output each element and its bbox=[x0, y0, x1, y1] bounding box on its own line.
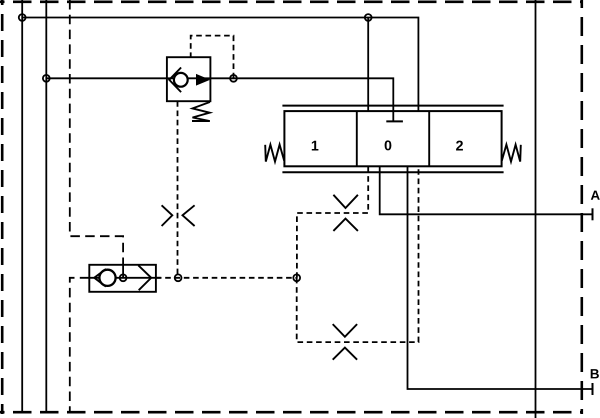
U1 body box bbox=[167, 57, 211, 101]
enclosure dashed border top bbox=[0, 0, 582, 3]
wire: dashed pilot from node junction up and right to valve port bbox=[297, 166, 368, 277]
V1 divider right bbox=[428, 111, 430, 166]
U1 spring bbox=[192, 102, 210, 121]
wire: top horizontal supply line bbox=[22, 18, 418, 112]
wire: drain dashed vertical (upper segment) with elbow to check valve top bbox=[70, 0, 123, 265]
wire: second horizontal line through check valve bbox=[46, 78, 393, 121]
node N7 bbox=[293, 274, 300, 281]
enclosure dashed border left bbox=[1, 0, 4, 414]
enclosure dashed border right bbox=[580, 0, 583, 414]
directional valve V1 (3-position proportional) bbox=[265, 106, 521, 173]
wire: drain dashed vertical (lower segment) from check valve left port to bottom bbox=[70, 278, 90, 411]
label B bbox=[591, 369, 599, 378]
wire: dashed pilot line from U1 bottom down to node bbox=[177, 101, 179, 278]
wire: left vertical line 2 bbox=[45, 0, 47, 411]
throttle R3 (lower, on horizontal dashed pilot) bbox=[333, 324, 357, 360]
port B end tick bbox=[592, 383, 594, 395]
wire: right vertical tank line bbox=[535, 0, 537, 418]
wire: dashed line from check valve U2 right port to node B junction bbox=[156, 277, 297, 279]
U2 top port stub bbox=[122, 265, 124, 278]
check valve U1 pilot dashed line bbox=[191, 36, 234, 79]
wire: left vertical line 1 (port P) bbox=[21, 0, 23, 411]
port A end tick bbox=[592, 208, 594, 220]
wire: vertical branch from node to valve top bbox=[367, 18, 369, 112]
V1 label 1 bbox=[312, 141, 319, 151]
wire: valve port to port A line bbox=[380, 166, 593, 214]
throttle R2 (upper, on horizontal dashed pilot) bbox=[333, 195, 358, 231]
V1 label 2 bbox=[456, 141, 463, 151]
throttle R1 (on vertical dashed line) bbox=[162, 205, 195, 226]
node N3 bbox=[365, 14, 372, 21]
V1 envelope bbox=[284, 111, 501, 166]
check valve U2 (bottom left) bbox=[89, 265, 160, 292]
V1 label 0 bbox=[385, 140, 392, 150]
node N5 bbox=[120, 274, 127, 281]
node N4 bbox=[230, 75, 237, 82]
check valve U1 (pilot operated, top) bbox=[167, 57, 211, 121]
U2 body box bbox=[89, 265, 156, 292]
node N2 bbox=[43, 75, 50, 82]
V1 blocked center port T symbol bbox=[386, 120, 403, 122]
U2 ball bbox=[99, 270, 115, 286]
enclosure dashed border bottom bbox=[0, 411, 582, 414]
U1 seat bbox=[169, 68, 181, 93]
U2 seat bbox=[94, 269, 106, 287]
wire: dashed pilot from node junction down and right to valve port bbox=[297, 166, 419, 342]
wire: valve port to port B line bbox=[408, 166, 593, 389]
node N1 bbox=[19, 14, 26, 21]
node N6 bbox=[175, 274, 182, 281]
U1 flow arrow bbox=[196, 74, 210, 86]
V1 upper rail bbox=[282, 105, 503, 107]
U2 flow line bbox=[89, 277, 160, 279]
V1 spring left bbox=[265, 145, 284, 162]
label A bbox=[591, 191, 600, 200]
U2 flow chevron bbox=[138, 265, 151, 290]
V1 lower rail bbox=[282, 171, 503, 173]
V1 divider left bbox=[356, 111, 358, 166]
U1 ball bbox=[174, 73, 188, 87]
V1 spring right bbox=[502, 145, 521, 162]
